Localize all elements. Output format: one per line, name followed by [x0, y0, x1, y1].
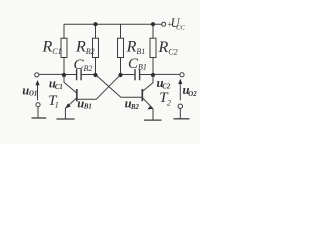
wire node B1 to CB1 — [121, 74, 136, 76]
wire output terminal 1 to node uC1 — [39, 73, 64, 75]
node uC2 junction dot — [151, 73, 155, 77]
resistor RC2 — [150, 38, 178, 57]
resistor RC1 — [42, 38, 68, 57]
rail junction dot at RB2 — [93, 22, 97, 26]
wire RB1 to node B1 — [120, 58, 122, 75]
wire node uC1 to CB2 — [64, 74, 77, 76]
wire RC2 to node uC2 — [152, 58, 154, 75]
T1 emitter lead with arrow — [65, 98, 76, 119]
wire terminal 2 to ground — [179, 108, 181, 118]
T2 collector lead — [142, 75, 153, 92]
wire rail drop to RC1 — [63, 24, 65, 38]
ground at T2 emitter — [144, 119, 162, 121]
output port 2 voltage arrow — [178, 79, 182, 101]
ground at T1 emitter — [57, 118, 75, 120]
output terminal 2 (bottom circle) — [178, 104, 182, 108]
output terminal 1 (top circle) — [35, 73, 39, 77]
wire CB2 to node B2 — [81, 74, 95, 76]
wire rail drop to RC2 — [152, 24, 154, 38]
output terminal 2 (top circle) — [180, 73, 184, 77]
wire rail drop to RB1 — [120, 24, 122, 38]
rail junction dot at RC2 — [151, 22, 155, 26]
wire top supply rail — [64, 23, 162, 25]
T2 base bar — [141, 89, 143, 101]
wire terminal 1 to ground — [37, 107, 39, 118]
wire cross-couple node B1 to T1 base elbow — [77, 75, 120, 100]
wire RB2 to node B2 — [95, 58, 97, 75]
node B2 junction dot — [93, 73, 97, 77]
T2 emitter lead with arrow — [142, 98, 153, 120]
resistor RB1 — [118, 38, 146, 57]
power terminal +Ucc — [162, 16, 186, 31]
output terminal 1 (bottom circle) — [36, 103, 40, 107]
wire node uC2 to output terminal 2 — [153, 73, 180, 75]
wire CB1 to node uC2 — [140, 74, 153, 76]
resistor RB2 — [75, 38, 99, 57]
ground at output port 2 — [174, 118, 190, 120]
ground at output port 1 — [32, 117, 47, 119]
output port 1 voltage arrow — [35, 80, 39, 100]
transistor T2 — [142, 75, 171, 120]
T1 collector lead — [64, 75, 77, 94]
T1 base bar — [76, 89, 78, 101]
wire RC1 to node uC1 — [63, 58, 65, 75]
capacitor CB2 — [74, 57, 93, 80]
capacitor CB1 — [128, 56, 147, 81]
node uC1 junction dot — [62, 73, 66, 77]
node B1 junction dot — [118, 73, 122, 77]
wire cross-couple node B2 to T2 base elbow — [96, 75, 142, 98]
transistor T1 — [48, 75, 77, 119]
wire rail drop to RB2 — [95, 24, 97, 38]
